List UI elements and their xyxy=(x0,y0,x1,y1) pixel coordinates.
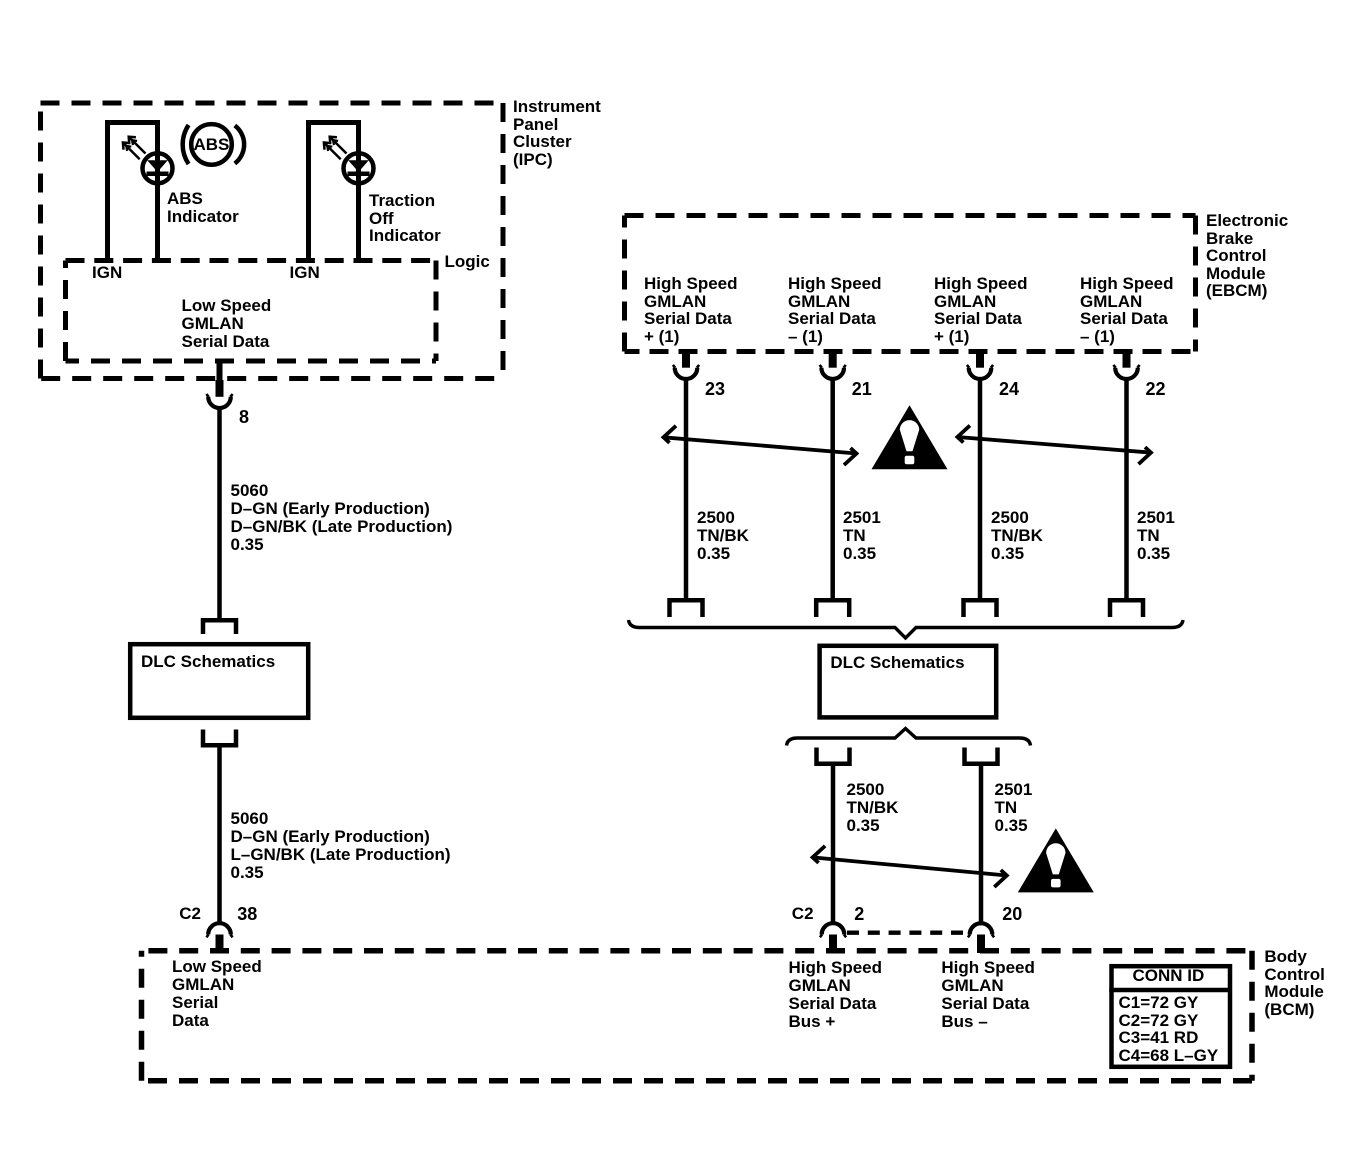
IPC title text xyxy=(513,98,601,168)
Traction Off Indicator label xyxy=(369,192,441,245)
EBCM High Speed GMLAN label 3 xyxy=(934,275,1028,345)
inline terminal under EBCM wire 21 xyxy=(816,600,849,617)
connector C2 label left xyxy=(179,905,201,923)
IPC logic dashed box xyxy=(66,261,437,362)
EBCM pin number 22 xyxy=(1146,380,1166,398)
wire 5060 from IPC pin 8 xyxy=(217,409,222,622)
ABS indicator lamp (LED symbol) xyxy=(105,122,160,258)
BCM C2 pin 20 male terminal xyxy=(977,935,985,954)
wire label 2501 lower xyxy=(995,781,1033,835)
IPC logic output stub xyxy=(217,361,223,380)
EBCM High Speed GMLAN label 1 xyxy=(644,275,738,345)
brace grouping four EBCM wires xyxy=(629,620,1184,638)
BCM C2 pin 2 connector dome xyxy=(820,923,846,937)
inline terminal under EBCM wire 22 xyxy=(1110,600,1143,617)
wire label 2500 lower xyxy=(847,781,899,835)
reference arrow across wires 23 and 21 xyxy=(664,426,857,465)
IPC pin 8 female connector cup xyxy=(206,394,232,408)
brace under right DLC box xyxy=(787,729,1031,746)
CONN ID header xyxy=(1133,967,1205,985)
EBCM pin 24 female connector cup xyxy=(967,365,993,379)
BCM High Speed GMLAN Bus + label xyxy=(789,959,883,1031)
body control module (BCM) box xyxy=(142,951,1253,1081)
pin 8 label xyxy=(239,408,249,426)
EBCM pin number 23 xyxy=(705,380,725,398)
reference arrow across wires 24 and 22 xyxy=(957,426,1151,465)
reference arrow across wires 2500/2501 xyxy=(813,846,1007,887)
EBCM pin 23 female connector cup xyxy=(673,365,699,379)
pin 2 label xyxy=(854,905,864,923)
ABS telltale symbol (circle with parentheses) xyxy=(183,124,244,165)
EBCM pin 21 female connector cup xyxy=(820,365,846,379)
inline terminal below left DLC box xyxy=(203,730,236,746)
Traction Off indicator lamp (LED symbol) xyxy=(306,122,361,258)
BCM C2 pin 20 connector dome xyxy=(968,923,994,937)
left DLC Schematics reference box xyxy=(130,644,308,718)
inline terminal under EBCM wire 24 xyxy=(964,600,997,617)
IPC pin 8 male terminal xyxy=(216,380,224,397)
wire label 2501 upper xyxy=(843,509,881,563)
Logic label xyxy=(445,253,490,271)
EBCM pin number 21 xyxy=(852,380,872,398)
inline terminal on wire 2501 below DLC xyxy=(965,748,998,764)
wire label 2501 upper-right xyxy=(1137,509,1175,563)
EBCM High Speed GMLAN label 4 xyxy=(1080,275,1174,345)
inline terminal above left DLC box xyxy=(203,620,236,634)
wire 5060 lower label xyxy=(231,810,451,882)
ABS Indicator label xyxy=(167,190,239,226)
wire 2500 TN/BK from EBCM pin 23 xyxy=(684,380,689,600)
BCM C2 pin 2 male terminal xyxy=(829,935,837,954)
left DLC Schematics text xyxy=(141,653,275,671)
wire label 2500 upper-right xyxy=(991,509,1043,563)
instrument panel cluster (IPC) module box xyxy=(41,103,504,379)
wire 5060 upper label xyxy=(231,482,453,554)
EBCM pin 21 male terminal xyxy=(829,352,837,368)
CONN ID table header separator xyxy=(1109,988,1230,993)
CONN ID table box xyxy=(1112,966,1231,1067)
IGN label left xyxy=(92,264,122,282)
EBCM title text xyxy=(1206,212,1288,300)
right DLC Schematics text xyxy=(830,654,964,672)
wire 2500 TN/BK from EBCM pin 24 xyxy=(978,380,983,600)
BCM title text xyxy=(1264,948,1324,1018)
EBCM pin 24 male terminal xyxy=(976,352,984,368)
BCM C2 pin 38 male terminal xyxy=(216,935,224,954)
EBCM pin 23 male terminal xyxy=(682,352,690,368)
EBCM pin 22 female connector cup xyxy=(1113,365,1139,379)
warning triangle (upper) xyxy=(872,405,948,469)
warning triangle (lower) xyxy=(1018,828,1094,892)
EBCM pin number 24 xyxy=(999,380,1019,398)
BCM High Speed GMLAN Bus - label xyxy=(941,959,1035,1031)
connector C2 label right xyxy=(792,905,814,923)
wire 2501 TN from EBCM pin 22 xyxy=(1124,380,1129,600)
IPC Low Speed GMLAN label xyxy=(182,297,272,351)
inline terminal on wire 2500 below DLC xyxy=(817,748,850,764)
inline terminal under EBCM wire 23 xyxy=(670,600,703,617)
wire 2501 TN from EBCM pin 21 xyxy=(830,380,835,600)
CONN ID rows xyxy=(1119,994,1219,1064)
BCM C2 pin 38 connector dome xyxy=(206,923,232,937)
ABS telltale text xyxy=(194,136,230,154)
EBCM pin 22 male terminal xyxy=(1123,352,1131,368)
IGN label right xyxy=(290,264,320,282)
wire 2501 TN to BCM xyxy=(979,764,984,922)
dashed link between BCM pin 2 and pin 20 connectors xyxy=(847,931,967,935)
BCM Low Speed GMLAN label xyxy=(172,958,262,1030)
pin 38 label xyxy=(237,905,257,923)
electronic brake control module (EBCM) box xyxy=(625,216,1196,352)
wire label 2500 upper-left xyxy=(697,509,749,563)
right DLC Schematics reference box xyxy=(820,646,997,718)
wire 2500 TN/BK to BCM xyxy=(831,764,836,922)
wire 5060 to BCM xyxy=(217,745,222,922)
pin 20 label xyxy=(1002,905,1022,923)
EBCM High Speed GMLAN label 2 xyxy=(788,275,882,345)
